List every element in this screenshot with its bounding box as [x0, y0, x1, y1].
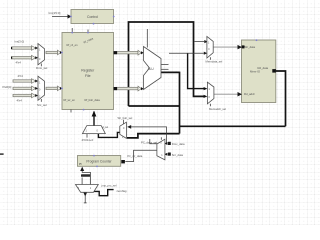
svg-text:4'h4: 4'h4: [16, 61, 22, 65]
svg-text:Rd_addr: Rd_addr: [244, 92, 255, 96]
svg-text:Pw0[4]: Pw0[4]: [3, 85, 12, 89]
svg-text:Control: Control: [87, 15, 98, 19]
svg-text:jmp_prc_sel: jmp_prc_sel: [101, 184, 117, 188]
svg-text:Rf_bdc_data: Rf_bdc_data: [85, 98, 101, 102]
svg-text:zeroflag: zeroflag: [117, 189, 127, 193]
svg-text:Ins[3:0]: Ins[3:0]: [15, 40, 25, 44]
svg-text:Rf_rd_en: Rf_rd_en: [67, 43, 79, 47]
svg-text:Memaddr_sel: Memaddr_sel: [209, 107, 226, 111]
svg-text:Rf_wr_en: Rf_wr_en: [64, 98, 76, 102]
svg-text:Src_data: Src_data: [172, 153, 184, 157]
svg-text:Pc_wr_data: Pc_wr_data: [128, 154, 143, 158]
svg-text:File: File: [85, 74, 91, 78]
svg-text:Mem-IO: Mem-IO: [250, 70, 261, 74]
svg-text:Wr_data: Wr_data: [245, 45, 256, 49]
svg-text:Program Counter: Program Counter: [86, 159, 112, 163]
svg-text:Register: Register: [81, 69, 95, 73]
svg-text:4'h011+0: 4'h011+0: [82, 138, 94, 142]
svg-text:Ins[15:0]: Ins[15:0]: [49, 11, 61, 15]
svg-text:Dmx_sel: Dmx_sel: [36, 66, 48, 70]
svg-text:PC_data_sel: PC_data_sel: [141, 141, 157, 145]
svg-text:d_sel: d_sel: [103, 126, 109, 129]
svg-text:ALU: ALU: [148, 67, 155, 71]
svg-text:4'h4: 4'h4: [17, 99, 23, 103]
svg-text:Wr_bdc_sel: Wr_bdc_sel: [118, 116, 133, 120]
svg-text:4'h4: 4'h4: [18, 74, 24, 78]
svg-text:Src_sel: Src_sel: [37, 103, 47, 107]
svg-text:Memdata_sel: Memdata_sel: [206, 60, 223, 64]
svg-text:Dmx_data: Dmx_data: [172, 142, 185, 146]
